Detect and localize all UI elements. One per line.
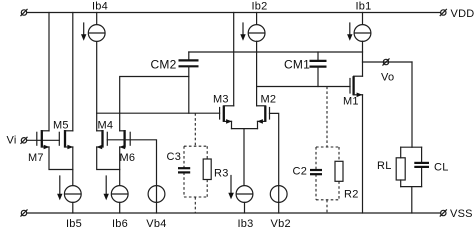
capacitor C3	[178, 168, 190, 172]
wire M6 drain up	[120, 77, 189, 131]
dashed parasitic C3 R3	[184, 113, 207, 213]
wire M6 source to Ib6	[119, 147, 121, 186]
svg-text:R3: R3	[214, 168, 229, 180]
wire M7 drain to VDD	[48, 13, 50, 131]
svg-text:M1: M1	[343, 96, 359, 108]
wire M3 drain to VDD	[233, 13, 235, 106]
transistor M6	[119, 130, 130, 149]
dashed parasitic C2 R2	[316, 87, 339, 214]
wire M5 source to Ib5	[72, 147, 74, 186]
svg-text:M3: M3	[213, 94, 229, 106]
svg-text:Vb4: Vb4	[146, 218, 166, 230]
arrow Ib3	[228, 176, 234, 200]
svg-text:Ib5: Ib5	[66, 218, 82, 230]
VSS rail	[27, 212, 441, 214]
VDD left terminal	[21, 9, 27, 15]
current source Ib4	[88, 13, 105, 42]
voltage source Vb2	[270, 186, 287, 203]
output wire Vo	[363, 61, 413, 63]
wire Ib4 to M4 drain	[96, 41, 98, 131]
resistor R3	[203, 159, 211, 180]
svg-text:CM1: CM1	[284, 57, 310, 71]
svg-text:CL: CL	[434, 162, 449, 174]
svg-text:Ib6: Ib6	[112, 218, 128, 230]
resistor RL	[396, 158, 405, 180]
svg-text:M5: M5	[53, 120, 69, 132]
wire M5 drain to VDD	[72, 13, 74, 131]
svg-text:VSS: VSS	[450, 208, 473, 220]
svg-text:Vb2: Vb2	[271, 218, 291, 230]
node wire first stage output to M3 gate	[97, 112, 220, 114]
current source Ib2	[248, 13, 265, 106]
VSS right terminal	[440, 210, 446, 216]
output node wire y52	[189, 51, 363, 53]
current source Ib6	[111, 186, 128, 213]
svg-text:RL: RL	[377, 160, 392, 172]
svg-text:Ib3: Ib3	[238, 218, 254, 230]
wire second stage output to M1 gate	[257, 86, 350, 88]
tail wire M3 M2 sources	[232, 121, 258, 185]
transistor M7	[37, 130, 50, 149]
arrow Ib1	[347, 23, 352, 41]
transistor M4	[96, 130, 107, 149]
wire M2 gate to Vb2	[270, 113, 279, 213]
svg-text:Vi: Vi	[7, 135, 17, 147]
svg-text:M2: M2	[261, 94, 277, 106]
wire Vo to load	[411, 62, 413, 147]
wire M7 source down	[49, 147, 73, 170]
wire M4 source down	[97, 147, 120, 170]
svg-text:M4: M4	[98, 120, 114, 132]
transistor M3	[220, 106, 234, 124]
svg-text:VDD: VDD	[451, 8, 474, 20]
arrow Ib2	[240, 23, 245, 41]
resistor R2	[335, 161, 343, 181]
wire Vi to gates of M7 M5	[27, 139, 60, 141]
svg-text:C2: C2	[293, 166, 308, 178]
current source Ib3	[236, 186, 253, 213]
transistor M5	[59, 130, 73, 149]
capacitor C2	[310, 170, 322, 174]
wire M1 source to VSS	[362, 95, 364, 213]
svg-text:CM2: CM2	[151, 57, 177, 71]
capacitor CM2	[179, 52, 199, 113]
svg-text:Ib4: Ib4	[92, 1, 108, 13]
svg-text:Ib2: Ib2	[252, 1, 268, 13]
VDD right terminal	[440, 9, 446, 15]
wire M4 M6 gates to Vb4	[107, 140, 156, 213]
arrow Ib5	[57, 176, 62, 200]
VSS left terminal	[21, 210, 27, 216]
capacitor CL	[414, 163, 429, 167]
voltage source Vb4	[148, 186, 165, 203]
svg-text:C3: C3	[167, 151, 182, 163]
svg-text:M6: M6	[120, 152, 136, 164]
transistor M1	[350, 76, 363, 97]
input terminal Vi	[21, 137, 27, 143]
load network RL CL	[401, 147, 422, 213]
current source Ib1	[354, 13, 371, 77]
current source Ib5	[64, 186, 81, 213]
arrow Ib6	[104, 176, 109, 200]
transistor M2	[257, 106, 270, 124]
VDD rail	[27, 12, 441, 14]
svg-text:Ib1: Ib1	[356, 1, 372, 13]
svg-text:Vo: Vo	[381, 72, 394, 84]
svg-text:R2: R2	[344, 189, 359, 201]
capacitor CM1	[310, 52, 327, 87]
output terminal Vo	[383, 59, 389, 65]
svg-text:M7: M7	[28, 152, 44, 164]
arrow Ib4	[81, 23, 86, 41]
